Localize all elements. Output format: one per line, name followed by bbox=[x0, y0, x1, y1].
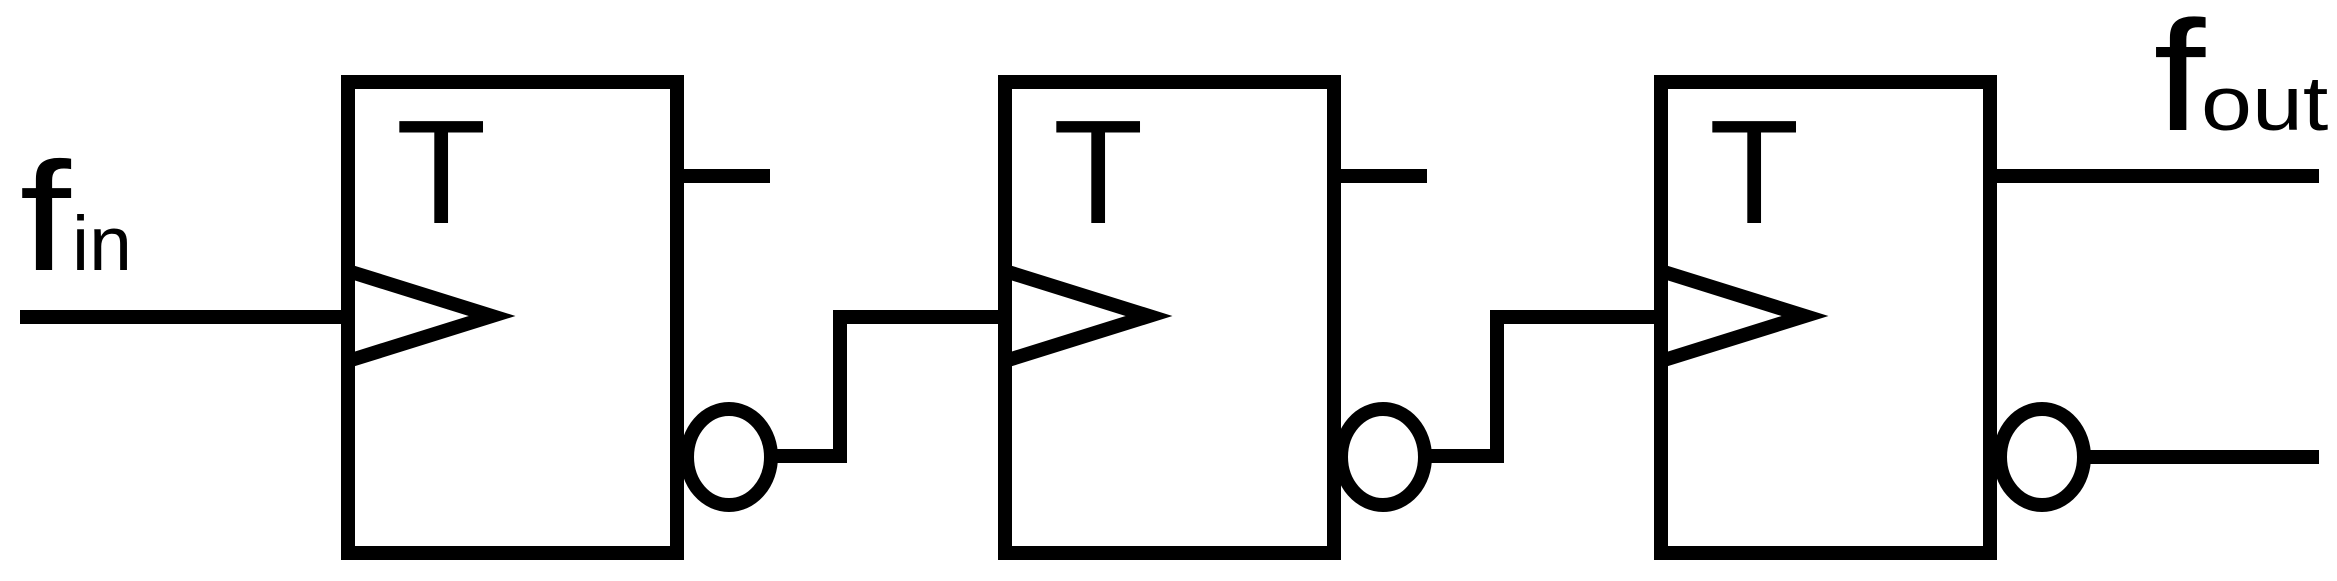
wire U2 Q output stub bbox=[1334, 169, 1427, 183]
svg-text:in: in bbox=[72, 201, 132, 287]
inverter bubble U1 Qbar bbox=[687, 409, 771, 505]
T flip-flop U3 box bbox=[1661, 82, 1990, 553]
inverter bubble U2 Qbar bbox=[1341, 409, 1425, 505]
svg-text:T: T bbox=[396, 90, 486, 255]
svg-text:T: T bbox=[1053, 90, 1143, 255]
svg-text:out: out bbox=[2201, 60, 2328, 146]
T flip-flop U1 box bbox=[348, 82, 677, 553]
inverter bubble U3 Qbar bbox=[2000, 409, 2084, 505]
wire U2 Qbar to U3 clock bbox=[1425, 317, 1661, 456]
clock triangle U3 bbox=[1661, 271, 1805, 361]
svg-text:f: f bbox=[2153, 0, 2206, 164]
wire U1 Qbar to U2 clock bbox=[771, 317, 1005, 456]
wire U1 Q output stub bbox=[677, 169, 770, 183]
svg-text:T: T bbox=[1709, 90, 1799, 255]
wire U3 Q output f_out bbox=[1990, 169, 2319, 183]
T flip-flop U2 box bbox=[1005, 82, 1334, 553]
clock triangle U1 bbox=[348, 271, 492, 361]
wire f_in input to U1 clock bbox=[20, 310, 348, 324]
svg-text:f: f bbox=[20, 131, 72, 304]
wire U3 Qbar output bbox=[2084, 450, 2319, 464]
clock triangle U2 bbox=[1005, 271, 1149, 361]
